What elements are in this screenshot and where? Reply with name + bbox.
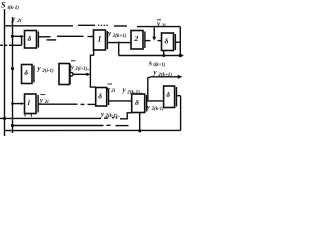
svg-text:2i: 2i [110,89,115,94]
trigger T9 box (bottom right) [164,86,175,108]
node ybar_2i label above T7 right [108,83,113,85]
wire T-drop to S line [118,43,120,56]
wire T1 output dashed run to T2 [38,36,50,38]
svg-text:y: y [100,111,104,118]
wire top boundary line (partially dashed) [5,25,74,27]
svg-text:δ: δ [24,68,28,77]
trigger T8 double right edge [146,95,148,112]
trigger T5 double right edge [33,66,35,83]
wire T7 output to T8 [109,100,132,102]
trigger T1 double right edge [37,32,39,48]
node P_2(k+1) label right of T2 [107,29,127,38]
node y_2(i-1) label [37,65,55,74]
trigger T9 glyph [166,90,170,99]
trigger T9 double right edge [176,87,178,107]
junction dot B1 x V1 [3,117,6,120]
svg-text:δ: δ [98,92,102,101]
wire vertical up from T8 output to y_2(k+1) arrow line [147,78,149,101]
node ybar_2i arrow label [156,20,166,29]
trigger T4 box [162,33,174,51]
node y_2(k-1) label top row bottom [122,86,143,95]
svg-text:2(i-1): 2(i-1) [41,69,54,74]
svg-text:y: y [39,97,43,104]
trigger T2 double right edge [106,31,108,49]
svg-text:δ: δ [135,98,139,107]
wire T4 output to right edge [175,41,180,43]
trigger T1 glyph [28,34,32,43]
wire y2i vertical bus V2 [12,17,14,133]
trigger T6 thick right edge [69,64,71,84]
junction dot on V2 mid [11,67,14,70]
wire T8 bottom drop to B3 [139,113,141,131]
trigger T8 box (bottom middle-right) [132,94,145,113]
svg-text:y: y [146,104,150,111]
wire bottom line B1 (exits left edge) [0,117,101,119]
trigger C double right edge [37,95,39,113]
svg-text:δ: δ [166,90,170,99]
wire S_i(k+1) output line [119,55,184,57]
wire input into C with arrow [13,103,22,105]
svg-text:y: y [106,86,110,93]
wire T6 inverted output with arrow into vertical [73,73,87,75]
trigger T5 box (middle left) [22,65,33,84]
wire T9 output to right edge down [177,95,181,97]
trigger T1 box [25,31,37,49]
svg-text:2(k-1): 2(k-1) [151,107,164,112]
svg-text:y: y [11,14,16,23]
svg-text:S: S [1,1,6,10]
node y_2i label [11,14,22,24]
junction dot on B3 [138,129,141,132]
node y_2(k-1) label under wire T8-T9 [146,104,164,112]
svg-text:1: 1 [98,35,102,44]
junction dot on V2 at block C input [11,102,14,105]
svg-text:2(i+1)..: 2(i+1).. [74,67,89,72]
node y_2(k+1) label [153,69,173,78]
wire left vertical bus V1 [4,9,6,136]
trigger T2 glyph 1 [98,35,102,44]
trigger T5 glyph [24,68,28,77]
node y_2(k-1) label under T7 [100,111,120,119]
trigger T7 box [96,88,107,107]
wire right edge top vertical [179,27,181,56]
node ybar_2(i+1) label above T6 output [71,60,76,62]
trigger C box (bottom left) [25,94,37,114]
trigger T4 double right edge [174,34,176,50]
wire scan double dash artifact [47,39,57,41]
svg-text:i(k+1): i(k+1) [153,63,165,68]
trigger T3 box [131,31,143,50]
wire bottom line B2 from V2 [11,124,14,127]
svg-text:2(k+1): 2(k+1) [112,34,127,39]
wire T2 to T3 [107,42,131,44]
trigger T3 double right edge [144,32,146,49]
node S_i(k+1) label [149,60,166,68]
junction dot on V2 feeding trigger T1 [11,35,14,38]
trigger C glyph [28,98,31,107]
wire dashed input from left edge at y=45.3 turning up into T1 [0,44,3,46]
wire y_2(k+1) output arrow to right [148,77,150,79]
svg-text:δ: δ [28,34,32,43]
svg-text:2: 2 [134,34,139,43]
wire input into T1 with arrow [13,35,22,37]
node S_i(k-1) label [1,1,19,11]
junction dot T-drop [118,42,120,44]
junction dot right [179,54,182,57]
svg-text:2i: 2i [16,18,22,24]
wire ybar_2i down arrow [153,28,155,38]
wire right edge bottom vertical [180,96,182,131]
junction dot [162,54,165,57]
trigger T3 glyph 2 [134,34,139,43]
inverter bubble on T6 output [70,73,73,76]
wire bottom boundary line B3 [5,129,181,131]
trigger C bottom wall tails [24,114,26,117]
wire T4 bottom drop to S line [163,51,165,56]
trigger T6 box (middle) [59,64,70,85]
wire T8 output to T9 [147,100,164,102]
trigger T2 box [94,30,106,50]
wire C output dashed to T7 left edge [38,103,77,105]
node ybar_2i label right of C [41,94,46,96]
wire dashed T3 to T4 [145,40,151,42]
trigger T7 glyph [98,92,102,101]
svg-text:i(k-1): i(k-1) [8,6,20,11]
trigger T7 double right edge [108,89,110,106]
svg-text:y: y [70,64,74,71]
svg-text:S: S [149,60,153,67]
svg-text:δ: δ [165,37,169,46]
wire T2 bottom jog down to T7 [90,50,95,87]
svg-text:2i: 2i [161,24,167,29]
trigger T4 glyph [165,37,169,46]
trigger T8 glyph [135,98,139,107]
wire B1 step up into T8 bottom corner [120,113,132,119]
